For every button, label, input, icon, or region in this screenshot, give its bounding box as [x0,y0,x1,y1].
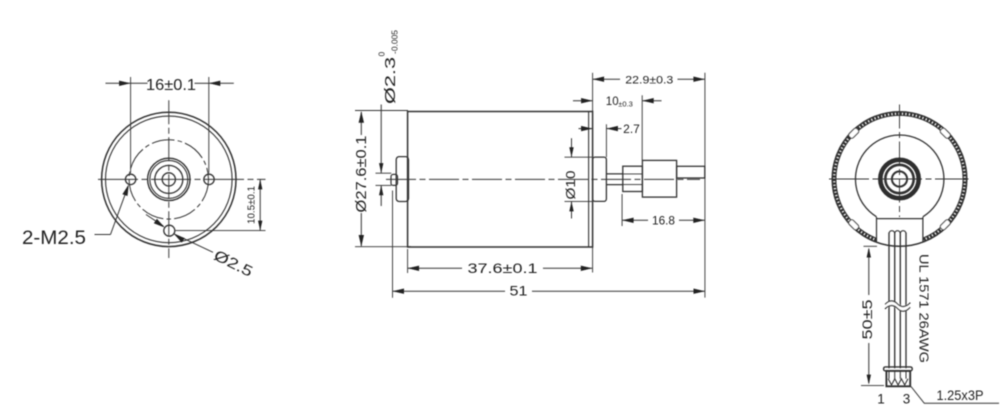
dimension 10+-0.3 [573,100,593,102]
bolt pitch circle (dash-dot) [129,140,208,219]
bearing boss circle 1 [148,158,190,200]
centerline vertical right view [899,105,901,218]
dimension dia10 boss [571,138,573,157]
knurled rim outer circle [832,112,967,247]
dimension 10.5+-0.1: dimension line + arrows [259,179,261,230]
mounting hole left M2.5 [125,174,135,184]
svg-text:UL 1571 26AWG: UL 1571 26AWG [917,254,932,363]
dimension 37.6+-0.1 [408,267,462,269]
knurl hatch ring (gap at lead tab) [834,114,965,241]
dimension 50+-5 [868,249,870,295]
leader for 1.25x3P [911,387,999,404]
front shaft dia2.3 [606,173,622,175]
svg-text:0: 0 [377,52,387,57]
extension line left 22.9 (cap edge extended) [592,73,594,112]
connector body [886,371,910,386]
end cap seam line [588,112,590,248]
gear block large [642,160,676,197]
dimension 10.5+-0.1: extension line from bottom hole [176,230,266,232]
end cap inner circle with bottom gap for lead tab [856,135,944,217]
rim notches at 45deg positions [939,127,951,139]
svg-text:16±0.1: 16±0.1 [146,77,196,94]
front bearing boss dia10 [593,157,607,201]
dimension 16+-0.1: extension lines [130,77,132,173]
rear shaft stub [391,174,398,185]
shaft lines through small block [623,173,643,175]
extension line for 10+-0.3 at block boundary [641,95,643,160]
rear boss circle 3 [885,165,913,193]
centerline horizontal right view [829,178,969,180]
centerline vertical [168,100,170,258]
label dia2.5 (rotated) with leader through hole [146,215,164,227]
svg-text:50±5: 50±5 [859,299,875,339]
hole dia 2.5 bottom [164,225,175,236]
svg-text:2.7: 2.7 [623,122,640,136]
svg-text:16.8: 16.8 [652,215,675,227]
bearing boss circle 3 [155,165,183,193]
dimension dia2.3: vertical dim line with arrows at rear stub [380,105,382,173]
svg-text:Ø27.6±0.1: Ø27.6±0.1 [353,136,370,213]
svg-text:10: 10 [606,96,619,108]
svg-text:37.6±0.1: 37.6±0.1 [468,260,538,276]
knurled rim inner circle (gap at lead tab) [836,115,963,238]
bearing boss circle 2 [150,160,188,198]
centerline horizontal middle view [386,178,700,180]
svg-text:10.5±0.1: 10.5±0.1 [247,186,258,224]
svg-text:1: 1 [877,392,885,407]
svg-text:Ø2.3: Ø2.3 [383,57,399,104]
dimension 22.9+-0.3 [593,78,620,80]
lead exit tab [877,218,923,220]
lead wires (3 wires, 4 lines) [888,233,890,369]
extension line 51 left [392,191,394,298]
extension line 37.6 left [407,249,409,273]
extension line 16.8 left [621,194,623,226]
dimension dia27.6 extension lines [355,110,408,112]
dimension 51 [393,290,506,292]
inner case circle [106,116,233,243]
svg-text:±0.3: ±0.3 [618,100,633,109]
svg-text:1.25x3P: 1.25x3P [937,388,984,403]
50+-5 reference lines [864,245,878,247]
dimension 16.8 [622,219,648,221]
connector crimp zigzag [888,379,908,385]
dimension dia2.3: extension lines [376,172,392,174]
svg-text:Ø10: Ø10 [563,171,578,200]
dimension 2.7 [579,128,593,130]
output shaft tip [677,166,705,178]
wires inside connector [888,371,890,379]
extension line for 2.7 at boss edge [605,124,607,157]
svg-text:-0.005: -0.005 [390,30,400,54]
centerline horizontal [98,178,266,180]
svg-text:22.9±0.3: 22.9±0.3 [625,74,673,86]
motor body rectangle [408,112,593,248]
leader for 2-M2.5 [95,234,111,236]
svg-text:3: 3 [903,392,911,407]
dimension dia27.6+-0.1: dim line with arrows [360,112,362,135]
shaft hole [162,173,175,186]
dimension 16+-0.1: dimension line + arrows [106,82,131,84]
svg-text:51: 51 [510,283,528,299]
connector top bar [884,367,913,371]
wire break symbol [885,303,910,309]
svg-text:2-M2.5: 2-M2.5 [22,228,86,249]
rear bearing boss [396,157,408,202]
mounting hole right M2.5 [204,174,214,184]
rear boss thick ring [880,160,918,198]
dia10 extension lines [565,156,593,158]
rear shaft end circle [892,171,907,186]
outer case circle [102,112,236,246]
wire rounded tops [889,231,906,234]
extension line right (shared 22.9/16.8/51) [704,73,706,298]
gear block small [623,166,643,191]
